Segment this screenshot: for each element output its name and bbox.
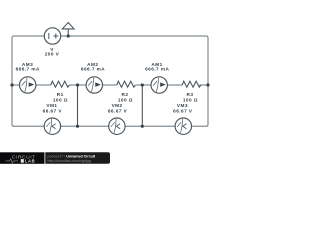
ammeter AM1 [151,77,167,93]
svg-text:R1: R1 [57,92,64,97]
svg-text:666.7 mA: 666.7 mA [145,67,169,72]
wire bottom rail between VM1 and VM2 [61,125,109,127]
svg-text:LAB: LAB [25,158,35,163]
label AM2 [81,62,105,72]
wire AM1 to R3 [167,84,182,86]
wire R3 to right border [199,84,208,86]
label AM3 [16,62,40,72]
svg-text:200 V: 200 V [45,52,60,57]
svg-text:666.7 mA: 666.7 mA [16,67,40,72]
resistor R3 [182,81,201,87]
wire top-left border loop (top rail left of source, left border, bottom rail to VM1) [12,36,44,126]
wire AM2 to R2 [102,84,116,86]
label VM2 [108,103,128,113]
svg-text:R2: R2 [122,92,129,97]
svg-text:666.7 mA: 666.7 mA [81,67,105,72]
wire vertical drop node B [77,85,79,126]
svg-text:66.67 V: 66.67 V [108,108,128,113]
junction node C bottom [141,125,144,128]
ammeter AM2 [86,77,102,93]
label AM1 [145,62,169,72]
ammeter AM3 [20,77,36,93]
watermark badge logo [0,152,110,164]
resistor R1 [51,81,70,87]
svg-text:66.67 V: 66.67 V [173,108,193,113]
voltage source V1 [44,28,60,44]
svg-text:http://circuitlab.com/c/gdjgq: http://circuitlab.com/c/gdjgq [48,159,92,163]
wire bottom rail between VM2 and VM3 [125,125,175,127]
junction node left rail [10,83,13,86]
svg-text:pochen27 / Unnamed Circuit: pochen27 / Unnamed Circuit [48,154,96,158]
label R2 100ohm [118,92,133,103]
label VM1 [43,103,63,113]
junction node right rail [206,83,209,86]
junction dot at flag [67,34,70,37]
wire R2 to AM1 [136,84,151,86]
junction node B top [76,83,79,86]
svg-text:100 Ω: 100 Ω [183,97,198,102]
label R1 100ohm [53,92,68,103]
label R3 100ohm [183,92,198,103]
wire AM3 to R1 [36,84,51,86]
node flag [62,23,74,37]
voltmeter VM1 [44,118,60,134]
wire vertical drop node C [141,85,143,126]
svg-text:100 Ω: 100 Ω [53,97,68,102]
junction node C top [141,83,144,86]
voltmeter VM3 [175,118,191,134]
wire middle rail left border to AM3 [12,84,20,86]
wire top rail right of source, right border, bottom-right segment [61,36,208,126]
svg-text:VM1: VM1 [46,103,57,108]
label VM3 [173,103,193,113]
watermark credit text [48,154,96,162]
svg-text:66.67 V: 66.67 V [43,108,63,113]
wire R1 to AM2 [69,84,86,86]
junction node B bottom [76,125,79,128]
label V 200V [45,47,60,57]
svg-text:R3: R3 [187,92,194,97]
resistor R2 [117,81,136,87]
svg-text:VM3: VM3 [177,103,188,108]
svg-text:VM2: VM2 [112,103,123,108]
voltmeter VM2 [109,118,125,134]
svg-text:100 Ω: 100 Ω [118,97,133,102]
